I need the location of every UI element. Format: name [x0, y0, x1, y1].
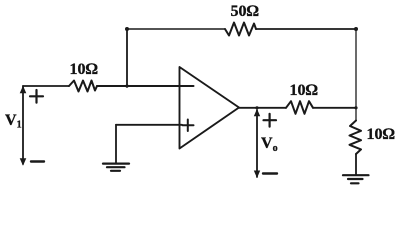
svg-text:10Ω: 10Ω — [290, 82, 318, 99]
svg-text:10Ω: 10Ω — [367, 126, 395, 143]
svg-text:Vo: Vo — [261, 135, 278, 154]
svg-text:50Ω: 50Ω — [231, 3, 259, 20]
svg-text:V1: V1 — [5, 112, 22, 131]
svg-text:10Ω: 10Ω — [70, 61, 98, 78]
